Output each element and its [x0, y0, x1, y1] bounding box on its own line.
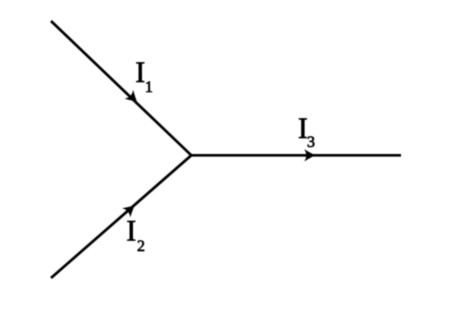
node junction	[190, 154, 193, 157]
label I2	[126, 215, 145, 255]
svg-text:2: 2	[137, 238, 145, 255]
svg-text:I: I	[135, 56, 145, 89]
wire branch I2 (bottom-left to node)	[51, 155, 191, 278]
label I1	[135, 56, 153, 96]
arrowhead I2	[122, 201, 139, 218]
arrowhead I1	[125, 90, 142, 107]
arrowhead I3	[304, 149, 316, 161]
label I3	[298, 112, 315, 151]
svg-text:I: I	[126, 215, 136, 248]
svg-text:1: 1	[145, 79, 153, 96]
wire branch I1 (top-left to node)	[51, 21, 191, 155]
svg-text:3: 3	[307, 134, 315, 151]
wire branch I3 (node to right)	[191, 154, 401, 157]
